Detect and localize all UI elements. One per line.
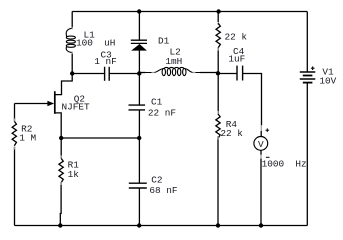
svg-text:1uF: 1uF: [228, 53, 245, 64]
wire: C4 right plate to corner and down to source V: [243, 74, 262, 126]
wire: top rail to 22k resistor: [217, 12, 219, 23]
diode D1 (double bar + filled triangle): [131, 39, 147, 41]
source V1 battery symbol: [306, 12, 308, 72]
battery plus sign: [311, 67, 315, 69]
gray pin stubs: 22k bottom lead: [217, 48, 219, 51]
gray pin stubs: L2 ends: [152, 72, 155, 74]
svg-text:C1: C1: [151, 96, 163, 107]
svg-text:22 nF: 22 nF: [148, 107, 176, 118]
svg-text:1mH: 1mH: [165, 56, 182, 67]
wire: V source bottom to rail: [260, 150, 262, 155]
node: top rail / D1 branch junction: [137, 9, 141, 13]
svg-text:68 nF: 68 nF: [149, 185, 177, 196]
gray pin stub below V source: [260, 155, 262, 159]
resistor R2: [12, 121, 16, 145]
wire: top rail down to D1: [138, 12, 140, 41]
wire: R1 to bottom rail: [59, 182, 62, 226]
svg-text:NJFET: NJFET: [62, 102, 91, 113]
svg-text:1k: 1k: [68, 169, 80, 180]
V source plus sign: [266, 129, 270, 131]
svg-text:10V: 10V: [319, 76, 336, 87]
node: bottom rail / C2 branch: [137, 223, 141, 227]
gray pin stubs: R2 leads: [13, 118, 15, 121]
capacitor C3: [104, 67, 106, 81]
wire: junction across to C1/C2 line: [61, 137, 139, 139]
capacitor C4: [236, 66, 238, 81]
Q2 source lead down: [55, 113, 61, 138]
svg-text:D1: D1: [158, 35, 170, 46]
capacitor C1: [129, 104, 146, 106]
node: D1 / C3 / L2 / C1 junction: [137, 71, 141, 75]
wire: source junction down to R1: [60, 138, 62, 158]
node: C1 / C2 junction: [137, 136, 141, 140]
resistor R4: [217, 74, 219, 114]
wire: R2 to bottom rail: [14, 147, 16, 226]
wire: C2 to bottom rail: [138, 188, 140, 226]
wire: left branch down from top rail to L1: [71, 12, 73, 29]
node: source lead / C-line junction: [59, 136, 63, 140]
inductor L1: [66, 36, 75, 39]
gray pin stub above V source: [260, 125, 262, 131]
wire: junction to L2 left: [139, 72, 145, 74]
gray pin stubs: R1 leads: [60, 155, 62, 158]
transistor Q2 channel bar: [54, 91, 56, 114]
wire: bottom rail: [15, 225, 308, 227]
wire: L2 right to 22k/C4/R4 junction: [200, 72, 218, 74]
V source minus sign: [266, 156, 270, 158]
svg-text:C2: C2: [151, 175, 162, 186]
wire: 22k to junction: [217, 48, 219, 74]
wire: gate corner down to R2: [14, 104, 16, 122]
svg-text:1 nF: 1 nF: [94, 56, 117, 67]
svg-text:100 uH: 100 uH: [76, 37, 115, 48]
Q2 drain lead staircase to junction: [55, 74, 72, 95]
wire: D1 to mid junction: [138, 51, 140, 74]
wire: L1 bottom to mid junction: [71, 53, 73, 74]
svg-text:22 k: 22 k: [225, 32, 248, 43]
node: top rail / 22k branch junction: [216, 9, 220, 13]
wire: mid junction down to C1: [138, 74, 140, 106]
wire: C1 to junction: [138, 110, 140, 138]
Q2 gate arrowhead: [47, 101, 54, 107]
node: L1 / C3 / drain junction: [70, 71, 74, 75]
gray pin stubs: L1 ends: [71, 27, 73, 29]
gray pin stub at 22k top: [217, 22, 219, 25]
svg-text:22 k: 22 k: [220, 128, 243, 139]
node: 22k / L2 / C4 / R4 junction: [216, 71, 220, 75]
wire: junction down to C2: [138, 138, 140, 183]
node: bottom rail / R1 branch: [58, 223, 62, 227]
wire: top rail: [72, 11, 307, 13]
voltage source V (AC) circle: [254, 137, 268, 151]
node: bottom rail / V source branch: [259, 223, 263, 227]
wire: C3 right plate to D1 junction: [109, 73, 139, 75]
Q2 gate wire: [15, 103, 49, 105]
wire: junction to C4 left plate: [218, 73, 237, 75]
resistor R1: [59, 158, 63, 182]
svg-text:V: V: [258, 139, 264, 150]
gray pin stubs: R4 leads: [217, 111, 219, 114]
inductor L2: [162, 68, 165, 75]
svg-text:1 M: 1 M: [19, 133, 36, 144]
node: bottom rail / R4 branch: [216, 223, 220, 227]
capacitor C2: [129, 182, 147, 184]
svg-text:1000 Hz: 1000 Hz: [262, 159, 307, 170]
resistor 22k (top): [216, 23, 220, 47]
wire: junction to C3 left plate: [72, 73, 104, 75]
